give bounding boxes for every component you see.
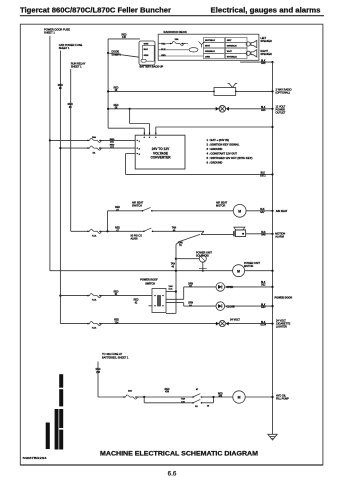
svg-text:G47: G47 xyxy=(260,212,265,214)
2-way radio unit xyxy=(213,91,215,93)
svg-text:AIR SEAT: AIR SEAT xyxy=(276,210,288,213)
wire V2 cab power fuse vertical xyxy=(59,51,61,324)
svg-text:6.6: 6.6 xyxy=(168,470,177,477)
wire solenoid feed vertical xyxy=(175,244,177,313)
ground xyxy=(268,434,277,440)
svg-text:96: 96 xyxy=(69,106,72,109)
svg-text:RED: RED xyxy=(114,87,119,89)
switch S2 90 PSI cutout xyxy=(143,231,145,233)
wire to radio connector (RED 130) xyxy=(108,38,140,40)
svg-text:M: M xyxy=(238,209,241,213)
wire open stub xyxy=(166,298,184,300)
svg-text:51: 51 xyxy=(179,245,182,247)
svg-text:RED: RED xyxy=(114,105,119,107)
svg-text:RED: RED xyxy=(165,389,170,391)
svg-text:SPEAKER: SPEAKER xyxy=(261,40,273,43)
wire box bottom return xyxy=(166,312,176,314)
svg-text:RED: RED xyxy=(115,228,120,230)
svg-text:96: 96 xyxy=(59,87,62,90)
svg-text:130: 130 xyxy=(122,36,127,39)
svg-text:WHT: WHT xyxy=(227,51,233,53)
svg-text:GRN: GRN xyxy=(144,44,149,46)
svg-text:2: 2 xyxy=(139,149,141,151)
wire power unit row xyxy=(50,270,233,272)
wire solenoid row xyxy=(176,258,199,260)
svg-text:2 : IGNITION KEY SIGNAL: 2 : IGNITION KEY SIGNAL xyxy=(207,143,240,147)
node bus top xyxy=(271,61,273,63)
svg-text:GRY: GRY xyxy=(227,40,232,42)
svg-text:TAN: TAN xyxy=(181,398,186,401)
12 volt power outlet socket xyxy=(219,106,226,113)
right speaker SPK2 xyxy=(246,51,250,55)
svg-text:GRN/BLK: GRN/BLK xyxy=(227,46,237,48)
wire upper branch xyxy=(144,396,193,398)
svg-text:GRN/BLK: GRN/BLK xyxy=(205,51,215,53)
svg-text:ORN: ORN xyxy=(188,303,193,305)
svg-text:M: M xyxy=(237,269,240,273)
svg-text:OPEN: OPEN xyxy=(226,286,233,289)
svg-text:BLK: BLK xyxy=(261,60,266,62)
wire close stub xyxy=(166,302,184,304)
wire roof switch input xyxy=(59,295,61,297)
svg-text:(OPTIONAL): (OPTIONAL) xyxy=(276,92,290,95)
svg-text:A1008: A1008 xyxy=(131,238,139,241)
svg-text:MOTOR: MOTOR xyxy=(216,205,225,208)
svg-text:7.5A: 7.5A xyxy=(92,234,97,237)
node solenoid tap xyxy=(175,258,177,260)
svg-text:RED: RED xyxy=(114,291,119,293)
svg-text:G49: G49 xyxy=(261,235,266,237)
svg-text:M: M xyxy=(238,396,241,400)
svg-text:OUTLET: OUTLET xyxy=(276,112,286,115)
radio wire-label column 1 xyxy=(204,37,225,42)
svg-text:6: 6 xyxy=(155,133,157,135)
node DIODE SHEET1 junction xyxy=(107,52,109,54)
diode D3 open xyxy=(216,283,225,292)
svg-text:7.5A: 7.5A xyxy=(92,299,97,302)
svg-text:6 : GROUND: 6 : GROUND xyxy=(207,161,223,165)
radio inline connector xyxy=(189,48,198,52)
svg-text:YEL: YEL xyxy=(161,44,166,46)
svg-text:LIGHTER: LIGHTER xyxy=(276,326,287,329)
svg-text:B1: B1 xyxy=(195,406,198,408)
svg-text:POWER ROOF: POWER ROOF xyxy=(140,279,158,282)
wire air seat riser xyxy=(107,211,109,232)
pin 2 xyxy=(137,147,138,148)
pin 1 xyxy=(137,140,138,141)
fuse 5A xyxy=(88,146,103,150)
radio wire-label column 2 xyxy=(225,37,247,42)
svg-text:4: 4 xyxy=(144,132,146,135)
wire lower branch xyxy=(143,397,145,403)
svg-text:TAN: TAN xyxy=(168,285,173,288)
svg-text:1 : BAT + (24V IN): 1 : BAT + (24V IN) xyxy=(207,138,229,142)
svg-text:TAN: TAN xyxy=(171,263,176,266)
svg-text:BLK: BLK xyxy=(260,209,265,211)
wire open row xyxy=(184,286,216,288)
svg-text:SHEET 1: SHEET 1 xyxy=(44,30,55,34)
svg-text:G62: G62 xyxy=(261,285,266,287)
svg-text:ALARM: ALARM xyxy=(275,235,284,238)
wire pin3 ground xyxy=(126,153,136,155)
svg-text:46: 46 xyxy=(172,266,175,268)
svg-text:WHT/BLK: WHT/BLK xyxy=(227,56,238,58)
diode D4 close xyxy=(216,302,225,311)
fuse 7.5A roof xyxy=(88,294,103,298)
svg-text:BLK: BLK xyxy=(261,173,266,175)
svg-text:25A: 25A xyxy=(92,136,96,139)
switch S5 lower xyxy=(192,402,194,404)
pin 6 xyxy=(155,137,156,138)
pin 4 xyxy=(144,137,145,138)
svg-text:G234: G234 xyxy=(260,325,266,327)
node pump branch xyxy=(143,396,145,398)
svg-text:SHEET 1: SHEET 1 xyxy=(71,65,82,69)
svg-text:218: 218 xyxy=(96,372,101,374)
svg-text:ORN: ORN xyxy=(205,56,210,58)
wire roof switch top stub xyxy=(166,291,176,293)
wire diode branch xyxy=(108,53,139,57)
node air seat tap xyxy=(106,230,108,232)
svg-text:POWER DOOR: POWER DOOR xyxy=(275,296,293,299)
svg-text:FILL PUMP: FILL PUMP xyxy=(276,398,289,401)
wire pump feed vertical xyxy=(97,362,99,398)
svg-text:GRN: GRN xyxy=(144,55,149,57)
motor M3 hyd oil fill pump xyxy=(233,391,245,403)
svg-text:CONVERTER: CONVERTER xyxy=(150,155,171,159)
wire V3 run relay vertical xyxy=(70,69,72,231)
svg-text:1: 1 xyxy=(139,141,141,143)
header rule xyxy=(20,15,324,17)
wire close row xyxy=(184,305,216,307)
svg-text:7.5A: 7.5A xyxy=(92,327,97,330)
wire 2-way radio row xyxy=(108,90,214,92)
svg-text:15A: 15A xyxy=(174,38,178,41)
fuse 7.5A xyxy=(88,229,103,233)
svg-text:RED: RED xyxy=(96,369,101,371)
wire 90psi row xyxy=(71,230,88,232)
svg-text:SWITCH: SWITCH xyxy=(132,204,142,207)
wire air seat row xyxy=(108,210,143,212)
svg-text:MOTOR: MOTOR xyxy=(244,265,253,268)
svg-text:BLK: BLK xyxy=(144,49,149,51)
svg-text:Electrical, gauges and alarms: Electrical, gauges and alarms xyxy=(211,6,321,15)
svg-text:SWITCH: SWITCH xyxy=(145,282,155,285)
svg-text:G06: G06 xyxy=(261,110,266,112)
svg-text:G06: G06 xyxy=(261,63,266,65)
svg-text:TAN: TAN xyxy=(172,227,177,230)
svg-text:G63: G63 xyxy=(261,307,266,309)
svg-text:RED: RED xyxy=(115,207,120,209)
ground bus vertical xyxy=(272,62,274,434)
svg-text:5 : SWITCHED 12V OUT (WITH KEY: 5 : SWITCHED 12V OUT (WITH KEY) xyxy=(207,156,253,160)
svg-text:WHT/BLK: WHT/BLK xyxy=(205,40,216,42)
svg-text:ORN: ORN xyxy=(188,283,193,285)
converter U1 box 24V TO 12V xyxy=(135,135,185,169)
svg-text:34067BR2S4: 34067BR2S4 xyxy=(23,456,47,460)
svg-text:RED: RED xyxy=(134,300,139,302)
wire roof switch lower stub xyxy=(149,305,153,307)
lighter socket xyxy=(219,321,225,327)
switch S4 upper xyxy=(192,396,194,398)
svg-text:RED: RED xyxy=(218,393,223,395)
svg-text:BATTERIES, SHEET 1: BATTERIES, SHEET 1 xyxy=(102,355,129,359)
svg-text:RADIO/CD DECK: RADIO/CD DECK xyxy=(164,30,188,34)
svg-text:BLK: BLK xyxy=(261,304,266,306)
svg-text:TAN: TAN xyxy=(178,241,183,244)
wire jog to alarm xyxy=(201,231,204,234)
solenoid L1 power unit xyxy=(199,255,206,262)
fuse 7.5A lighter xyxy=(88,322,103,326)
motion alarm horn xyxy=(234,227,245,230)
svg-text:BLK: BLK xyxy=(261,107,266,109)
svg-text:3 : GROUND: 3 : GROUND xyxy=(207,147,223,151)
svg-text:5A: 5A xyxy=(93,151,96,154)
wire pin4 feed xyxy=(108,127,144,129)
node feed vertical crossing xyxy=(175,270,177,272)
svg-text:3: 3 xyxy=(139,154,141,156)
power roof switch S3 box xyxy=(152,289,166,313)
svg-text:SHEET 1: SHEET 1 xyxy=(59,46,70,50)
frame bottom rule xyxy=(20,464,323,466)
svg-text:MACHINE ELECTRICAL SCHEMATIC D: MACHINE ELECTRICAL SCHEMATIC DIAGRAM xyxy=(100,450,258,457)
radio connector box xyxy=(139,41,155,65)
wire to pump motor xyxy=(214,396,233,398)
wire lighter row xyxy=(60,323,88,325)
antenna symbol xyxy=(199,42,205,48)
revision note bars xyxy=(59,374,63,388)
wire pin6 ground to bus xyxy=(155,127,157,135)
svg-text:434: 434 xyxy=(165,392,170,394)
radio internal wires xyxy=(158,43,172,45)
wire diode-feed vertical xyxy=(107,39,109,128)
svg-text:24 VOLT: 24 VOLT xyxy=(230,318,240,321)
svg-text:CLOSE: CLOSE xyxy=(226,305,235,308)
svg-text:BLK: BLK xyxy=(261,282,266,284)
svg-text:BLK: BLK xyxy=(261,322,266,324)
wire pin5 feed xyxy=(129,109,131,124)
svg-text:WHT: WHT xyxy=(205,46,211,48)
pin 3 xyxy=(137,153,138,154)
svg-text:16: 16 xyxy=(207,405,210,407)
node pin5 tap xyxy=(129,108,131,110)
svg-text:BLK: BLK xyxy=(261,232,266,234)
switch S1 air seat xyxy=(142,210,144,212)
svg-text:5: 5 xyxy=(149,133,151,135)
svg-text:4 : CONSTANT 12V OUT: 4 : CONSTANT 12V OUT xyxy=(207,152,238,156)
svg-text:Tigercat 860C/870C/L870C Felle: Tigercat 860C/870C/L870C Feller Buncher xyxy=(20,6,171,15)
wire converter pin1 feed (25A) xyxy=(49,139,51,141)
left speaker SPK1 xyxy=(246,42,250,46)
svg-text:20A: 20A xyxy=(128,390,132,393)
motor M1 air seat xyxy=(233,204,246,217)
connector tab xyxy=(141,59,146,62)
pin 5 xyxy=(149,137,150,138)
wire converter pin2 feed (5A) xyxy=(59,147,61,149)
svg-text:SPEAKER: SPEAKER xyxy=(261,53,273,56)
svg-text:51A: 51A xyxy=(169,288,173,291)
wire V1 power door fuse vertical xyxy=(49,36,51,271)
wire TAN51 diagonal branch xyxy=(180,234,201,241)
motor M2 power unit xyxy=(233,265,245,277)
svg-text:RED: RED xyxy=(114,320,119,322)
wire radio ground to bus xyxy=(240,61,273,63)
svg-text:G372: G372 xyxy=(260,175,266,177)
wire solenoid stem xyxy=(202,262,204,271)
wire 12V outlet row xyxy=(108,108,220,110)
svg-text:62: 62 xyxy=(135,302,138,304)
svg-text:BATTERY BACK-UP: BATTERY BACK-UP xyxy=(140,65,164,68)
svg-text:47: 47 xyxy=(196,388,199,391)
